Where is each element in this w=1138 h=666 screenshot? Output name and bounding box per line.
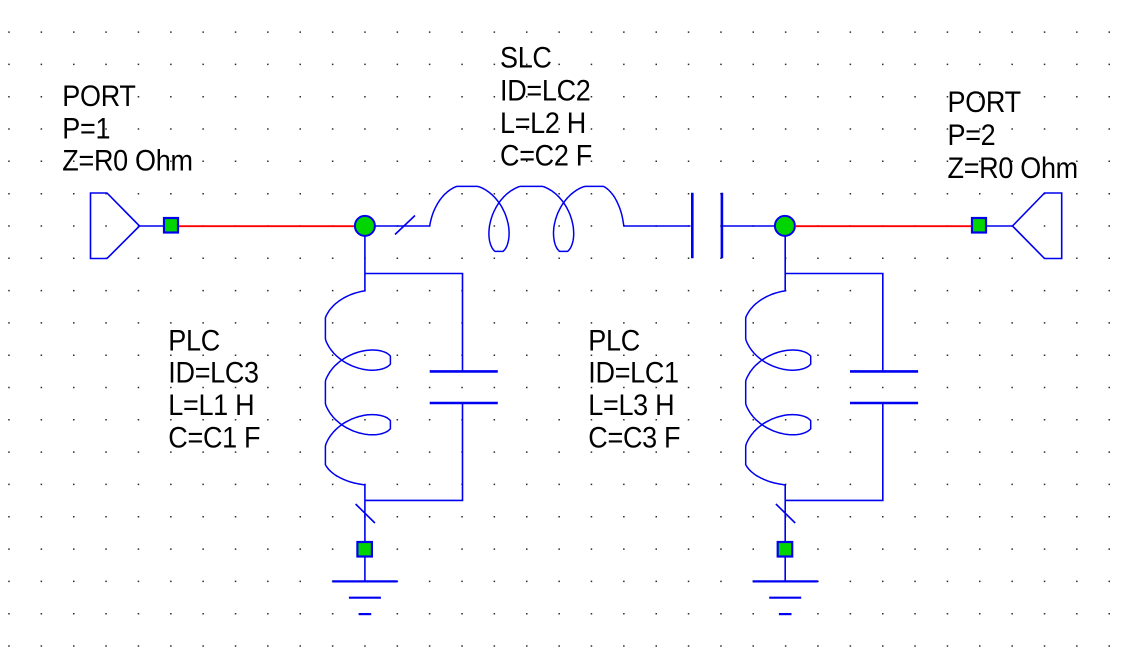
svg-text:Z=R0 Ohm: Z=R0 Ohm <box>62 144 192 178</box>
PLC LC1 inductor stub top <box>784 274 786 292</box>
wire PLC LC3 to ground <box>364 500 366 542</box>
wire LC2 coil to capacitor <box>624 225 691 227</box>
svg-text:P=1: P=1 <box>62 112 110 146</box>
port P1 terminal square <box>164 218 178 233</box>
wire node down to PLC LC3 <box>364 235 366 274</box>
wire square to ground LC3 <box>364 557 366 581</box>
PLC LC1 capacitor plates <box>850 371 918 403</box>
label PORT P=2 Z=R0 Ohm <box>948 86 1078 186</box>
PLC LC1 top branch <box>785 274 883 372</box>
svg-text:PLC: PLC <box>588 324 640 358</box>
PLC LC3 capacitor plates <box>430 371 498 403</box>
svg-text:C=C2 F: C=C2 F <box>500 139 592 173</box>
wire node down to PLC LC1 <box>784 235 786 274</box>
svg-text:PLC: PLC <box>168 324 220 358</box>
PLC LC1 pin 1 marker slash <box>776 504 795 523</box>
PLC LC1 inductor stub bottom <box>784 484 786 500</box>
port P2 terminal square <box>972 218 986 233</box>
ground symbol LC1 <box>753 581 818 614</box>
svg-text:ID=LC3: ID=LC3 <box>168 356 258 390</box>
wire P1 to node N1 <box>179 225 355 227</box>
svg-text:PORT: PORT <box>948 86 1021 120</box>
PLC LC3 pin 1 marker slash <box>356 504 375 523</box>
inductor of SLC LC2 <box>430 186 624 251</box>
label SLC ID=LC2 L=L2 H C=C2 F <box>500 41 592 173</box>
wire N1 to LC2 pin 1 <box>375 225 430 227</box>
svg-text:P=2: P=2 <box>948 119 996 153</box>
svg-text:L=L1 H: L=L1 H <box>168 389 254 423</box>
PLC LC1 inductor coil <box>746 291 811 485</box>
svg-text:L=L3 H: L=L3 H <box>588 389 674 423</box>
node N1 junction <box>355 216 375 236</box>
label PLC ID=LC1 L=L3 H C=C3 F <box>588 324 680 455</box>
port P2 symbol <box>987 193 1062 259</box>
wire LC2 pin 2 to node N2 <box>723 225 775 227</box>
ground symbol LC3 <box>332 581 397 614</box>
svg-text:PORT: PORT <box>62 80 135 114</box>
svg-text:C=C1 F: C=C1 F <box>168 421 260 455</box>
port P1 symbol <box>91 193 164 259</box>
svg-text:C=C3 F: C=C3 F <box>588 421 680 455</box>
PLC LC3 inductor stub top <box>364 274 366 292</box>
capacitor of SLC LC2 <box>692 193 722 258</box>
LC2 pin 1 marker slash <box>395 216 415 235</box>
node N2 junction <box>775 216 795 236</box>
wire square to ground LC1 <box>784 557 786 581</box>
wire N2 to P2 <box>795 225 971 227</box>
svg-text:L=L2 H: L=L2 H <box>500 107 586 141</box>
label PORT P=1 Z=R0 Ohm <box>62 80 192 178</box>
PLC LC3 terminal square <box>357 542 372 557</box>
PLC LC1 bottom branch <box>785 403 883 500</box>
PLC LC1 terminal square <box>778 542 793 557</box>
PLC LC3 top branch <box>365 274 463 372</box>
svg-text:SLC: SLC <box>500 41 552 75</box>
PLC LC3 inductor stub bottom <box>364 484 366 500</box>
svg-text:Z=R0 Ohm: Z=R0 Ohm <box>948 152 1078 186</box>
svg-text:ID=LC2: ID=LC2 <box>500 74 590 108</box>
label PLC ID=LC3 L=L1 H C=C1 F <box>168 324 260 455</box>
wire PLC LC1 to ground <box>784 500 786 542</box>
svg-text:ID=LC1: ID=LC1 <box>588 356 678 390</box>
PLC LC3 inductor coil <box>325 291 390 485</box>
PLC LC3 bottom branch <box>365 403 463 500</box>
